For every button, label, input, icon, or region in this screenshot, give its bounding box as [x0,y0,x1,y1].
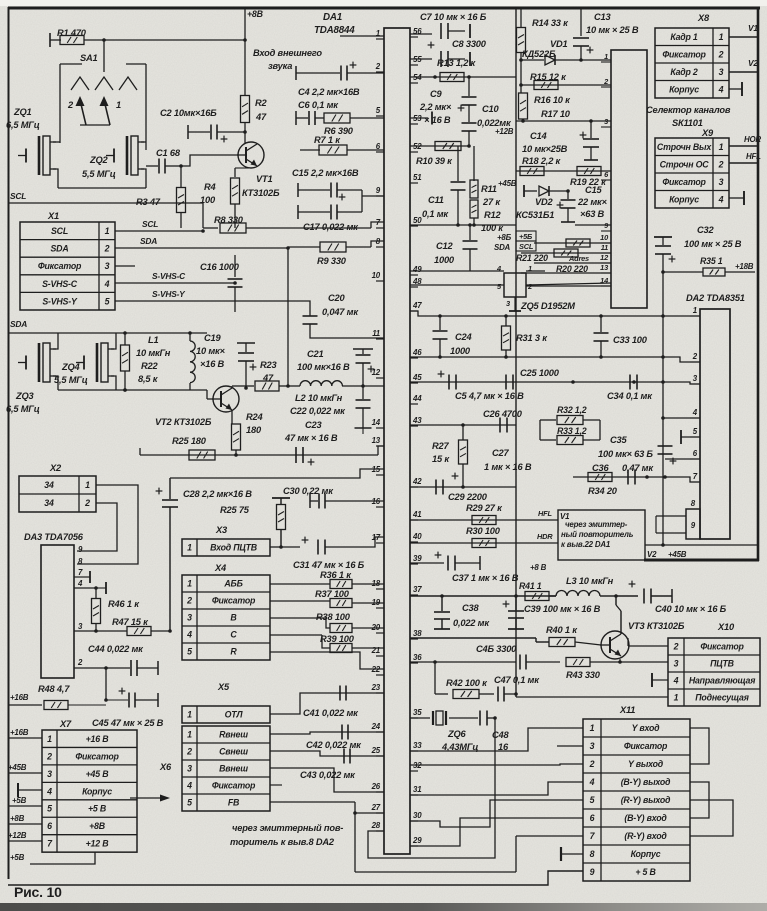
svg-text:С36: С36 [592,463,609,473]
svg-text:49: 49 [412,265,422,274]
wire L3 [549,595,556,597]
wire cluster bottom [58,389,207,391]
wire selector rows [534,242,611,244]
capacitor C41 [339,686,341,701]
svg-text:6,5 МГц: 6,5 МГц [6,404,40,414]
wire ZQ2 contacts [141,141,146,143]
svg-text:Фиксатор: Фиксатор [75,751,119,761]
resistor R22 [124,333,126,345]
svg-text:×63 В: ×63 В [580,209,605,219]
resistor R14 [520,8,522,28]
DA3 pin2 wire [74,667,130,669]
capacitor C43 [343,749,345,764]
svg-text:C6 0,1 мк: C6 0,1 мк [298,100,339,110]
border frame top [8,7,760,10]
svg-text:24: 24 [371,722,381,731]
svg-text:R: R [230,647,237,657]
svg-text:+8Б: +8Б [497,233,512,242]
resistor R7 [300,149,320,151]
svg-text:13: 13 [600,263,609,272]
svg-text:(В-Y) выход: (В-Y) выход [621,777,671,787]
svg-text:R31 3 к: R31 3 к [516,333,548,343]
capacitor C29 [435,480,437,495]
svg-text:Корпус: Корпус [82,786,112,796]
svg-text:42: 42 [412,477,422,486]
svg-text:R39 100: R39 100 [320,634,355,644]
svg-text:1: 1 [187,730,192,740]
svg-text:ZQ4: ZQ4 [61,362,81,372]
wire ZQ5 pin1 stub [526,270,545,272]
svg-text:R14 33 к: R14 33 к [532,18,569,28]
svg-text:ZQ1: ZQ1 [13,107,32,117]
svg-text:1000: 1000 [450,346,471,356]
resistor R38 [270,617,326,619]
capacitor C26 [499,418,501,433]
wire pin54 row [410,76,516,78]
svg-text:5: 5 [187,798,192,808]
svg-text:+8В: +8В [89,821,106,831]
svg-text:0,1 мк: 0,1 мк [422,209,449,219]
X11 bracket rows 4-6 [690,782,709,818]
svg-text:+8 В: +8 В [530,563,547,572]
svg-text:+5В: +5В [10,853,25,862]
svg-text:SCL: SCL [10,191,26,201]
svg-text:VT2 КТ3102Б: VT2 КТ3102Б [155,417,212,427]
svg-text:+16В: +16В [10,728,29,737]
svg-text:C13: C13 [594,12,611,22]
resistor R20 [554,249,578,257]
svg-text:R24: R24 [246,412,263,422]
svg-text:R9 330: R9 330 [317,256,347,266]
wire ZQ1 top to SA1 [53,141,60,143]
svg-text:4: 4 [692,408,698,417]
svg-text:S-VHS-Y: S-VHS-Y [42,296,78,306]
svg-text:4: 4 [718,84,724,94]
border frame left [8,7,10,879]
svg-text:C42 0,022 мк: C42 0,022 мк [306,740,362,750]
resistor R39 [270,634,322,636]
svg-text:SК1101: SК1101 [672,118,703,128]
switch SA1 contacts [71,77,89,90]
svg-text:R43 330: R43 330 [566,670,601,680]
svg-text:В: В [230,613,237,623]
svg-text:1: 1 [47,734,52,744]
svg-text:5: 5 [47,804,52,814]
svg-text:R36 1 к: R36 1 к [320,570,352,580]
capacitor C22 [362,386,364,399]
svg-text:ZQ2: ZQ2 [89,155,109,165]
svg-text:Вход внешнего: Вход внешнего [253,48,322,58]
wire emitter row [140,454,378,456]
inductor L1 [189,333,191,341]
svg-text:КС531Б1: КС531Б1 [516,210,554,220]
svg-text:R40 1 к: R40 1 к [546,625,578,635]
svg-text:R4: R4 [204,182,217,192]
svg-text:C2 10мк×16Б: C2 10мк×16Б [160,108,217,118]
svg-text:5,5 МГц: 5,5 МГц [82,169,116,179]
wire V2 row [645,544,757,546]
svg-text:14: 14 [372,418,381,427]
capacitor C16 [234,255,236,277]
resistor R6 [324,113,350,123]
svg-text:2: 2 [77,658,83,667]
svg-text:C45 47 мк × 25 В: C45 47 мк × 25 В [92,718,164,728]
svg-text:R13 1,2 к: R13 1,2 к [437,58,477,68]
DA3 pin7 stub [74,576,90,578]
svg-text:C33 100: C33 100 [613,335,648,345]
wire pin35 ZQ6 [410,717,430,719]
svg-text:3: 3 [674,659,679,669]
capacitor C13 [580,8,582,36]
svg-text:С4Б 3300: С4Б 3300 [476,644,517,654]
svg-text:3: 3 [719,177,724,187]
wire pin9 row [575,224,611,226]
svg-text:+18В: +18В [735,262,754,271]
svg-text:V2: V2 [748,58,758,68]
resistor R21 [566,239,590,247]
transistor VT1 [238,142,264,168]
capacitor C23 [295,447,297,463]
svg-text:4: 4 [496,264,501,273]
V1 annotation box [558,510,645,560]
svg-text:C11: C11 [428,195,444,205]
svg-text:+45В: +45В [668,550,687,559]
resistor R8 [203,227,218,229]
wire X7-4 ground [18,789,42,791]
wire pin39 C37 [410,562,444,564]
svg-text:R1 470: R1 470 [57,28,87,38]
svg-text:Rвнеш: Rвнеш [219,730,248,740]
capacitor C36 [627,470,629,485]
capacitor C35 [658,445,673,447]
svg-text:Вход ПЦТВ: Вход ПЦТВ [210,543,258,553]
capacitor C24 [439,316,441,330]
svg-text:10: 10 [372,271,381,280]
svg-text:4: 4 [186,630,192,640]
svg-text:Фиксатор: Фиксатор [662,49,706,59]
wire pin36 row [410,661,435,663]
wire X7-1 [8,737,42,739]
svg-text:АББ: АББ [223,579,242,589]
svg-text:R30 100: R30 100 [466,526,501,536]
svg-text:ZQ3: ZQ3 [15,391,35,401]
svg-text:100 мк× 63 Б: 100 мк× 63 Б [598,449,653,459]
svg-text:4: 4 [186,781,192,791]
svg-text:ОТЛ: ОТЛ [225,710,244,720]
resistor R13 [440,73,464,82]
capacitor C11 [457,146,459,181]
svg-text:4: 4 [673,676,679,686]
wire to pin13 [378,446,384,455]
svg-text:+ 5 В: + 5 В [635,867,656,877]
svg-text:11: 11 [601,243,608,252]
capacitor C20 [303,315,318,317]
svg-text:46: 46 [412,348,422,357]
svg-text:R3 47: R3 47 [136,197,161,207]
crystal ZQ1 [18,155,26,157]
wire SDA bus [8,332,207,334]
crystal ZQ3 [18,362,26,364]
svg-text:Строчн ОС: Строчн ОС [660,159,710,169]
svg-text:X9: X9 [701,128,714,138]
resistor R48 [8,704,42,706]
svg-text:С: С [230,630,237,640]
svg-text:2: 2 [67,100,74,110]
svg-text:+12В: +12В [495,127,514,136]
svg-text:C32: C32 [697,225,714,235]
capacitor C6 [296,117,308,119]
wire pin52 row [410,145,469,147]
wire VD2 row [524,190,537,192]
capacitor C12 [469,225,471,240]
switch SA1 arrow bar [80,124,110,126]
svg-text:2: 2 [692,352,698,361]
resistor R27 [462,425,464,440]
wire to pin9 [361,190,363,212]
svg-text:3: 3 [187,613,192,623]
wire X11r7 from loop [516,835,583,837]
switch SA1 pole [103,40,105,72]
svg-text:через эмиттер-: через эмиттер- [565,520,628,529]
resistor R1 [49,33,51,47]
crystal filter ZQ5 box [504,273,526,297]
resistor R34 [588,473,612,482]
svg-text:S-VHS-C: S-VHS-C [42,279,78,289]
svg-text:22 мк×: 22 мк× [577,197,608,207]
svg-text:30: 30 [413,811,422,820]
svg-text:0,022 мк: 0,022 мк [453,618,490,628]
wire pin29 X11r6 [410,818,583,846]
svg-text:5,5 МГц: 5,5 МГц [54,375,88,385]
svg-text:C7 10 мк × 16 Б: C7 10 мк × 16 Б [420,12,487,22]
svg-text:2: 2 [186,747,192,757]
resistor R29 [472,516,496,525]
crystal ZQ6 [432,711,434,725]
svg-text:+8В: +8В [247,9,264,19]
svg-text:+16 В: +16 В [86,734,110,744]
svg-text:SDA: SDA [140,236,157,246]
wire X9-4 ground [729,197,744,199]
svg-text:C44 0,022 мк: C44 0,022 мк [88,644,144,654]
wire +5В loop [30,852,95,864]
resistor R25 [189,450,215,460]
annotation arrow [130,797,164,799]
wire pin41 HFL row [410,519,558,521]
svg-text:VD2: VD2 [535,197,554,207]
svg-text:Фиксатор: Фиксатор [212,781,256,791]
channel selector module box [611,50,647,308]
wire podnesushaya [516,696,668,698]
svg-text:C4 2,2 мк×16В: C4 2,2 мк×16В [298,87,360,97]
DA2 pin4 wire [663,417,700,419]
svg-text:R33 1,2: R33 1,2 [557,426,587,436]
DA2 notch [686,509,700,539]
capacitor C45 [106,699,128,701]
svg-text:C5 4,7 мк × 16 В: C5 4,7 мк × 16 В [455,391,524,401]
DA2 pin6 wire [665,458,700,460]
svg-text:Х6: Х6 [159,762,172,772]
X11 row8 ground [561,853,583,855]
wire pin49 to ZQ5 [410,270,504,272]
svg-text:SCL: SCL [51,226,68,236]
svg-text:DA2 ТDА8351: DA2 ТDА8351 [686,293,745,303]
svg-text:C19: C19 [204,333,221,343]
resistor R43 [566,658,590,667]
svg-text:(В-Y) вход: (В-Y) вход [624,813,667,823]
wire ZQ5 pin2 row [526,283,611,285]
svg-text:ПЦТВ: ПЦТВ [710,659,735,669]
svg-text:V2: V2 [647,550,657,559]
svg-text:5: 5 [590,795,595,805]
svg-text:L3 10 мкГн: L3 10 мкГн [566,576,614,586]
svg-text:Y выход: Y выход [628,759,664,769]
capacitor C44 [130,660,132,676]
capacitor C47 [497,687,499,702]
svg-text:27: 27 [371,803,381,812]
svg-text:C23: C23 [305,420,322,430]
svg-text:C12: C12 [436,241,453,251]
svg-text:33: 33 [413,741,422,750]
capacitor C32 [654,236,672,238]
svg-text:S-VHS-C: S-VHS-C [152,271,186,281]
svg-text:R7 1 к: R7 1 к [314,135,341,145]
wire X8-1 V1 [729,36,757,38]
svg-text:2: 2 [589,759,595,769]
svg-text:(R-Y) выход: (R-Y) выход [621,795,671,805]
svg-text:2,2 мк×: 2,2 мк× [419,102,452,112]
wire loop pin28 [368,718,495,858]
capacitor C30 [310,500,318,502]
svg-text:2: 2 [375,62,381,71]
DA2 pin5 stub [681,436,700,438]
svg-text:+5Б: +5Б [519,232,532,241]
svg-text:37: 37 [413,585,422,594]
wire X3 to pin17 [270,546,281,548]
svg-text:10 мкГн: 10 мкГн [136,348,171,358]
svg-text:C20: C20 [328,293,345,303]
wire pin27 loop [355,812,384,814]
resistor R40 [536,641,549,643]
svg-text:HDR: HDR [537,532,553,541]
wire VT3 collector [615,596,617,605]
svg-text:+5В: +5В [12,796,27,805]
wire SCL row [115,230,203,232]
svg-text:100 мк × 25 В: 100 мк × 25 В [684,239,742,249]
svg-text:C1 68: C1 68 [156,148,181,158]
svg-text:DA3 TDA7056: DA3 TDA7056 [24,532,84,542]
inductor L3 [556,591,600,597]
DA2 pin8 pin9 wires [656,515,686,517]
X11 bracket rows 5-7 [690,800,733,836]
capacitor C5 [438,373,445,375]
resistor R16R17 [519,93,528,119]
svg-text:VD1: VD1 [550,39,568,49]
svg-text:Селектор каналов: Селектор каналов [646,105,731,115]
svg-text:4: 4 [718,194,724,204]
wire X7-7 [8,840,42,842]
svg-text:HFL: HFL [746,152,761,161]
svg-text:Adres: Adres [568,254,589,263]
svg-text:35: 35 [413,708,422,717]
svg-text:+45В: +45В [8,763,27,772]
wire X6-5 FB [270,801,355,803]
svg-text:звука: звука [268,61,292,71]
svg-text:+16В: +16В [10,693,29,702]
svg-text:X4: X4 [214,563,227,573]
wire pin50 row [410,224,516,226]
svg-text:C47 0,1 мк: C47 0,1 мк [494,675,540,685]
right section bottom border [644,559,759,562]
wire X11r2 stub [557,745,583,747]
svg-text:5: 5 [187,647,192,657]
svg-text:4: 4 [46,786,52,796]
wire X7-6 [8,823,42,825]
svg-text:2: 2 [46,751,52,761]
svg-text:C10: C10 [482,104,499,114]
svg-text:ZQ5 D1952М: ZQ5 D1952М [520,301,575,311]
svg-text:47: 47 [255,112,267,122]
crystal ZQ4 [76,362,84,364]
wire pin38 row [410,637,536,639]
wire pin43 row [410,424,516,426]
svg-text:2: 2 [186,596,192,606]
wire pin30 X11r5 [410,800,583,827]
svg-text:R48 4,7: R48 4,7 [38,684,70,694]
capacitor C31 [317,540,319,555]
crystal ZQ2 [106,155,114,157]
svg-text:10 мк×: 10 мк× [196,346,226,356]
capacitor C21 [353,348,373,350]
resistor R2 [241,96,250,123]
svg-text:45: 45 [412,373,422,382]
svg-text:X10: X10 [717,622,735,632]
resistors R32 R33 [540,419,556,421]
svg-text:C41 0,022 мк: C41 0,022 мк [303,708,359,718]
svg-text:10 мк × 25 В: 10 мк × 25 В [586,25,639,35]
label +5Б SCL flags [516,231,536,241]
svg-text:C30 0,22 мк: C30 0,22 мк [283,486,334,496]
svg-text:X5: X5 [217,682,230,692]
wire VT3 emitter [619,659,621,662]
svg-text:3: 3 [590,741,595,751]
svg-text:C24: C24 [455,332,472,342]
resistor R37 [270,600,330,602]
svg-text:3: 3 [719,67,724,77]
svg-text:C22 0,022 мк: C22 0,022 мк [290,406,346,416]
capacitor C25 [505,375,507,390]
resistor R30 [472,539,496,548]
svg-text:38: 38 [413,629,422,638]
svg-text:12: 12 [600,253,609,262]
svg-text:через эмиттерный пов-: через эмиттерный пов- [232,823,343,833]
svg-text:180: 180 [246,425,262,435]
svg-text:1: 1 [693,306,697,315]
svg-text:SDA: SDA [10,319,27,329]
svg-text:к выв.22 DA1: к выв.22 DA1 [561,540,610,549]
resistor R3 [180,166,182,188]
wire S-VHS-C row [115,282,235,284]
svg-text:R8 330: R8 330 [214,215,244,225]
capacitor C15 [567,191,569,199]
diode VD1 [521,59,544,61]
resistor R24 [231,410,233,424]
svg-text:X2: X2 [49,463,62,473]
svg-text:C34 0,1 мк: C34 0,1 мк [607,391,653,401]
svg-text:C14: C14 [530,131,547,141]
capacitor C10 [462,122,477,124]
wire pin40 HDR row [410,542,558,544]
svg-text:1: 1 [85,480,90,490]
